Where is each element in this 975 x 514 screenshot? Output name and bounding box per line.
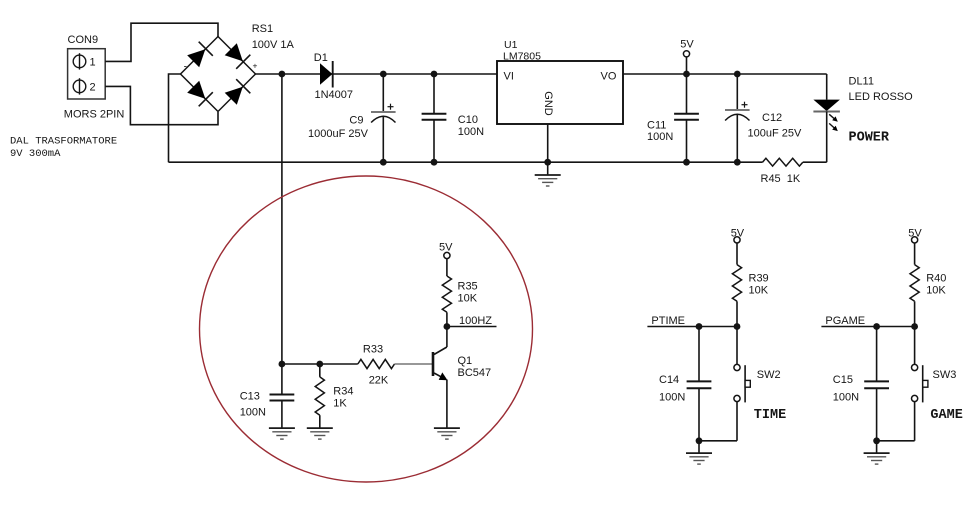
label 1N4007 bbox=[315, 89, 354, 101]
wire SW3 bottom to ground node bbox=[877, 440, 915, 442]
pin label VO bbox=[601, 71, 617, 83]
wire R33 to Q1 base bbox=[395, 363, 434, 365]
wire C10 bottom bbox=[433, 120, 435, 163]
svg-text:GND: GND bbox=[542, 91, 554, 116]
pin label VI bbox=[504, 71, 514, 83]
svg-text:MORS 2PIN: MORS 2PIN bbox=[64, 109, 125, 121]
label R35 bbox=[458, 281, 478, 293]
label R34 bbox=[333, 386, 353, 398]
svg-text:C13: C13 bbox=[240, 391, 260, 403]
bridge minus terminal mark bbox=[184, 62, 187, 73]
label C13 value 100N bbox=[240, 407, 266, 419]
capacitor C9 (electrolytic) bbox=[371, 104, 396, 123]
svg-text:R45 1K: R45 1K bbox=[761, 173, 801, 185]
svg-text:C12: C12 bbox=[762, 112, 782, 124]
wire C12 to R45 bbox=[737, 161, 762, 163]
power terminal 5V (main) bbox=[683, 51, 689, 74]
svg-text:DAL TRASFORMATORE: DAL TRASFORMATORE bbox=[10, 136, 117, 148]
LED DL11 bbox=[813, 100, 840, 132]
wire bridge plus to VI bbox=[256, 73, 498, 75]
net label PGAME bbox=[825, 315, 865, 327]
pin label GND (rotated) bbox=[542, 91, 554, 116]
label C11 bbox=[647, 119, 666, 131]
label R39 value 10K bbox=[749, 285, 769, 297]
junction C13 node bbox=[279, 361, 286, 368]
wire LED cathode down bbox=[826, 112, 828, 163]
wire Q1 emitter down bbox=[446, 380, 448, 429]
bridge rectifier RS1 diamond outline bbox=[181, 37, 256, 112]
wire R45 to LED bottom bbox=[803, 161, 827, 163]
svg-text:TIME: TIME bbox=[754, 408, 786, 423]
label C11 value 100N bbox=[647, 131, 673, 143]
junction ground node TIME section bbox=[696, 437, 703, 444]
svg-text:GAME: GAME bbox=[930, 408, 962, 423]
svg-text:R39: R39 bbox=[749, 273, 769, 285]
label C14 value 100N bbox=[659, 392, 685, 404]
svg-text:R33: R33 bbox=[363, 344, 383, 356]
svg-text:Q1: Q1 bbox=[458, 355, 473, 367]
label GAME bbox=[930, 408, 962, 423]
svg-text:1000uF 25V: 1000uF 25V bbox=[308, 128, 369, 140]
svg-text:100N: 100N bbox=[659, 392, 685, 404]
label C15 bbox=[833, 374, 853, 386]
svg-text:1N4007: 1N4007 bbox=[315, 89, 354, 101]
resistor R40 bbox=[910, 265, 919, 327]
junction C10 bottom bbox=[431, 159, 438, 166]
wire VO output rail bbox=[623, 73, 827, 75]
label C15 value 100N bbox=[833, 392, 859, 404]
svg-text:10K: 10K bbox=[749, 285, 769, 297]
wire/underline net PTIME bbox=[647, 326, 737, 328]
ground symbol below U1 bbox=[535, 162, 561, 186]
junction SW3 top node bbox=[911, 323, 918, 330]
highlight ellipse (red) bbox=[200, 176, 533, 482]
svg-text:PTIME: PTIME bbox=[651, 315, 685, 327]
label C13 bbox=[240, 391, 260, 403]
wire U1 GND pin down bbox=[547, 124, 549, 162]
ground below TIME section bbox=[686, 441, 712, 464]
svg-text:-: - bbox=[184, 62, 187, 73]
label R39 bbox=[749, 273, 769, 285]
junction node raw DC bbox=[279, 71, 286, 78]
wire/underline 100HZ stub bbox=[447, 326, 497, 328]
label 100V 1A bbox=[252, 39, 295, 51]
junction C12 top bbox=[734, 71, 741, 78]
junction C11 top bbox=[683, 71, 690, 78]
svg-text:BC547: BC547 bbox=[458, 367, 492, 379]
label R35 value 10K bbox=[458, 293, 478, 305]
bridge diode bottom-left (- to AC bottom) bbox=[187, 81, 213, 107]
wire C11 bottom bbox=[686, 120, 688, 163]
wire C13 node to R34 node bbox=[282, 363, 320, 365]
resistor R39 bbox=[732, 265, 741, 327]
ground below Q1 bbox=[434, 428, 460, 439]
capacitor C13 bbox=[270, 364, 295, 428]
note DAL TRASFORMATORE 9V 300mA bbox=[10, 136, 117, 161]
switch SW2 bbox=[734, 327, 750, 441]
label R40 value 10K bbox=[926, 285, 946, 297]
svg-text:+: + bbox=[253, 61, 258, 71]
connector CON9 label bbox=[68, 34, 99, 46]
capacitor C11 bbox=[674, 114, 699, 120]
power terminal 5V (GAME section) bbox=[912, 237, 918, 265]
wire/underline net PGAME bbox=[821, 326, 914, 328]
svg-text:C15: C15 bbox=[833, 374, 853, 386]
svg-text:U1: U1 bbox=[504, 39, 518, 51]
power terminal 5V (TIME section) bbox=[734, 237, 740, 265]
svg-text:RS1: RS1 bbox=[252, 23, 273, 35]
label U1 bbox=[504, 39, 518, 51]
capacitor C14 bbox=[687, 327, 712, 441]
label R33 bbox=[363, 344, 383, 356]
svg-text:2: 2 bbox=[90, 82, 96, 94]
svg-text:C14: C14 bbox=[659, 374, 679, 386]
bridge plus terminal mark bbox=[253, 61, 258, 71]
svg-text:5V: 5V bbox=[680, 39, 694, 51]
label MORS 2PIN bbox=[64, 109, 125, 121]
resistor R34 bbox=[315, 364, 324, 428]
resistor R33 bbox=[358, 359, 395, 368]
label C14 bbox=[659, 374, 679, 386]
label C12 bbox=[762, 112, 782, 124]
label 100uF 25V bbox=[748, 128, 802, 140]
connector CON9 pin 2 number bbox=[90, 82, 96, 94]
wire C12 top bbox=[736, 74, 738, 110]
label C9 bbox=[349, 115, 363, 127]
ground below R34 bbox=[307, 428, 333, 439]
bridge diode top-left (anode - to AC top) bbox=[187, 42, 213, 68]
connector CON9 pin 1 number bbox=[90, 57, 96, 69]
op-amp U1 regulator box bbox=[497, 61, 623, 124]
label POWER bbox=[849, 131, 890, 146]
wire raw DC down to oscillator bbox=[281, 74, 283, 364]
wire C10 top bbox=[433, 74, 435, 114]
label 5V TIME section bbox=[731, 228, 745, 240]
svg-text:5V: 5V bbox=[908, 228, 922, 240]
junction U1 GND on rail bbox=[544, 159, 551, 166]
wire pin1 to bridge AC top bbox=[105, 23, 218, 61]
svg-text:SW3: SW3 bbox=[933, 369, 957, 381]
net label 100HZ bbox=[459, 315, 492, 327]
label C10 value 100N bbox=[458, 126, 484, 138]
svg-text:C9: C9 bbox=[349, 115, 363, 127]
label LM7805 bbox=[503, 51, 541, 63]
label D1 bbox=[314, 52, 328, 64]
label LED ROSSO bbox=[849, 91, 914, 103]
transistor Q1 collector bbox=[434, 347, 447, 355]
svg-text:R40: R40 bbox=[926, 273, 946, 285]
ground below GAME section bbox=[864, 441, 890, 464]
svg-text:1K: 1K bbox=[333, 397, 347, 409]
connector CON9 pin 1 symbol bbox=[73, 53, 86, 69]
wire R34 node to R33 bbox=[320, 363, 358, 365]
svg-text:9V 300mA: 9V 300mA bbox=[10, 148, 61, 160]
svg-text:LED ROSSO: LED ROSSO bbox=[849, 91, 914, 103]
label 1000uF 25V bbox=[308, 128, 369, 140]
capacitor C15 bbox=[864, 327, 889, 441]
label R40 bbox=[926, 273, 946, 285]
capacitor C12 (electrolytic) bbox=[725, 102, 750, 121]
label R45 1K bbox=[761, 173, 801, 185]
label C10 bbox=[458, 114, 478, 126]
label DL11 bbox=[849, 76, 874, 88]
svg-text:C10: C10 bbox=[458, 114, 478, 126]
ground below C13 bbox=[269, 428, 295, 439]
net label PTIME bbox=[651, 315, 685, 327]
svg-text:100HZ: 100HZ bbox=[459, 315, 492, 327]
svg-text:POWER: POWER bbox=[849, 131, 890, 146]
label 5V oscillator bbox=[439, 242, 453, 254]
junction C9 bottom bbox=[380, 159, 387, 166]
svg-text:100N: 100N bbox=[833, 392, 859, 404]
label 5V GAME section bbox=[908, 228, 922, 240]
junction ground node GAME section bbox=[873, 437, 880, 444]
capacitor C10 bbox=[422, 114, 447, 120]
junction C12 bottom bbox=[734, 159, 741, 166]
label RS1 bbox=[252, 23, 273, 35]
power terminal 5V (oscillator) bbox=[444, 252, 450, 258]
svg-text:100uF 25V: 100uF 25V bbox=[748, 128, 802, 140]
wire SW2 bottom to ground node bbox=[699, 440, 737, 442]
bridge diode top-right (AC top to +) bbox=[225, 43, 251, 69]
svg-text:100N: 100N bbox=[458, 126, 484, 138]
label R33 value 22K bbox=[369, 375, 389, 387]
svg-text:R35: R35 bbox=[458, 281, 478, 293]
svg-text:CON9: CON9 bbox=[68, 34, 99, 46]
switch SW3 bbox=[912, 327, 928, 441]
svg-text:10K: 10K bbox=[926, 285, 946, 297]
connector CON9 pin 2 symbol bbox=[73, 78, 86, 94]
svg-text:5V: 5V bbox=[439, 242, 453, 254]
svg-text:100V 1A: 100V 1A bbox=[252, 39, 295, 51]
wire bridge minus to ground rail bbox=[169, 74, 181, 162]
ground rail (bottom) bbox=[169, 161, 738, 163]
svg-text:10K: 10K bbox=[458, 293, 478, 305]
bridge diode bottom-right (AC bottom to +) bbox=[225, 79, 251, 105]
transistor Q1 emitter with arrow bbox=[434, 372, 448, 380]
svg-text:R34: R34 bbox=[333, 386, 353, 398]
label Q1 bbox=[458, 355, 473, 367]
junction C10 top bbox=[431, 71, 438, 78]
label TIME bbox=[754, 408, 786, 423]
resistor R35 bbox=[442, 259, 451, 327]
svg-text:22K: 22K bbox=[369, 375, 389, 387]
wire C9 top bbox=[382, 74, 384, 112]
svg-text:PGAME: PGAME bbox=[825, 315, 865, 327]
wire C9 bottom bbox=[382, 117, 384, 162]
svg-text:LM7805: LM7805 bbox=[503, 51, 541, 63]
transistor Q1 base bar bbox=[432, 352, 435, 376]
connector CON9 body bbox=[68, 49, 106, 99]
wire 5V rail to LED top bbox=[826, 74, 828, 100]
junction C11 bottom bbox=[683, 159, 690, 166]
svg-text:VI: VI bbox=[504, 71, 514, 83]
svg-text:VO: VO bbox=[601, 71, 617, 83]
wire Q1 collector up bbox=[446, 327, 448, 348]
svg-text:SW2: SW2 bbox=[757, 369, 781, 381]
svg-text:100N: 100N bbox=[647, 131, 673, 143]
label SW2 bbox=[757, 369, 781, 381]
label BC547 bbox=[458, 367, 492, 379]
label SW3 bbox=[933, 369, 957, 381]
junction 100HZ node bbox=[444, 323, 451, 330]
label R34 value 1K bbox=[333, 397, 347, 409]
label 5V main bbox=[680, 39, 694, 51]
wire C12 bottom bbox=[736, 115, 738, 162]
junction C14 top node bbox=[696, 323, 703, 330]
svg-text:1: 1 bbox=[90, 57, 96, 69]
svg-text:D1: D1 bbox=[314, 52, 328, 64]
junction R34 node bbox=[316, 361, 323, 368]
junction SW2 top node bbox=[734, 323, 741, 330]
diode D1 bbox=[320, 61, 333, 88]
resistor R45 bbox=[763, 158, 803, 166]
wire pin2 to bridge AC bottom bbox=[105, 86, 218, 124]
wire C11 top bbox=[686, 74, 688, 114]
svg-text:C11: C11 bbox=[647, 119, 666, 131]
junction C15 top node bbox=[873, 323, 880, 330]
svg-text:5V: 5V bbox=[731, 228, 745, 240]
junction C9 top bbox=[380, 71, 387, 78]
svg-text:DL11: DL11 bbox=[849, 76, 874, 88]
svg-text:100N: 100N bbox=[240, 407, 266, 419]
